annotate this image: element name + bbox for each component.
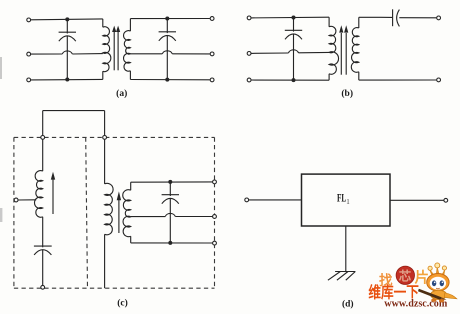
mascot pen xyxy=(418,289,442,300)
wire (a) output bottom xyxy=(130,79,210,81)
wire (c) output top xyxy=(131,181,213,183)
transformer T2 (b) core line right xyxy=(345,33,347,75)
wire hop (b) over C3 lead xyxy=(289,50,299,53)
shield box (c) right edge xyxy=(214,137,216,288)
wire (a) input top xyxy=(31,18,103,21)
transformer T2 (b) core arrow right xyxy=(344,25,348,32)
capacitor C2 top plate xyxy=(159,31,176,33)
wire (c) L5 to C5 xyxy=(42,217,44,248)
wire (a) output middle right of hop xyxy=(172,53,210,55)
terminal (d) output xyxy=(444,198,448,202)
figure (c): shielded two-section filter in dashed enclosure xyxy=(14,137,215,288)
wire (c) top loop right vertical xyxy=(104,111,106,184)
wire (c) input tap xyxy=(18,199,36,201)
capacitor C1 bottom lead xyxy=(66,36,68,80)
terminal (b) input top xyxy=(247,16,251,20)
svg-text:(a): (a) xyxy=(116,88,127,99)
capacitor C3 top plate xyxy=(285,29,302,31)
node (c) C6 bottom junction xyxy=(168,241,172,245)
mascot eye left xyxy=(432,280,436,286)
capacitor C3 bottom lead xyxy=(293,34,295,80)
wire (a) input bottom xyxy=(31,78,103,81)
capacitor C6 curved plate xyxy=(162,198,179,203)
shield box (c) left edge xyxy=(13,137,15,288)
wire (d) ground lead xyxy=(345,226,347,272)
inductor L2 (a) secondary winding with tap xyxy=(124,31,131,72)
wire (d) input xyxy=(249,199,302,201)
transformer T3 (c) core arrow head xyxy=(117,191,121,200)
node (b) C3 bottom junction xyxy=(292,78,296,82)
inductor L4 (b) secondary winding xyxy=(351,28,358,73)
terminal (c) output middle on shield xyxy=(213,215,217,219)
inductor L3 (b) primary winding with tap xyxy=(329,26,338,74)
transformer T1 (a) core line right xyxy=(117,32,119,71)
capacitor C2 curved plate xyxy=(159,35,176,40)
wire hop (a) left over C1 lead xyxy=(62,51,72,54)
wire (b) primary bottom lead xyxy=(328,74,330,80)
wire (b) input middle right of hop xyxy=(299,51,330,53)
terminal (a) output middle xyxy=(210,52,214,56)
ground (d) hatch 1 xyxy=(328,272,340,281)
transformer T1 (a) core arrow left xyxy=(112,26,116,32)
terminal (b) input bottom xyxy=(247,78,251,82)
mascot face xyxy=(430,277,446,290)
shield box (c) top edge xyxy=(14,136,215,138)
inductor L1 (a) primary winding with tap xyxy=(103,27,111,72)
svg-text:(c): (c) xyxy=(117,297,128,308)
wire (b) primary top lead xyxy=(328,17,330,27)
capacitor C4 (b) series curved plate xyxy=(397,10,400,27)
capacitor C1 curved plate xyxy=(59,36,76,41)
node (a) C1 top junction xyxy=(65,17,69,21)
wire (b) secondary top lead xyxy=(358,17,360,28)
transformer T2 (b) core arrow left xyxy=(339,25,343,32)
node (b) C3 top junction xyxy=(292,16,296,20)
svg-text:芯: 芯 xyxy=(399,268,412,283)
terminal (b) output top xyxy=(437,16,441,20)
terminal (a) input bottom xyxy=(27,78,31,82)
inductor L7 (c) transformer secondary with tap xyxy=(123,190,131,237)
wire (b) secondary bottom lead xyxy=(358,72,360,80)
transformer T1 (a) core arrow right xyxy=(116,26,120,32)
mascot body xyxy=(431,290,447,299)
capacitor C3 curved plate xyxy=(285,34,302,39)
wire (c) output middle right of hop xyxy=(175,216,212,218)
wire (c) top loop left vertical xyxy=(42,111,44,172)
capacitor C5 (c) bottom lead xyxy=(42,250,44,286)
wire (c) output middle left of hop xyxy=(131,216,166,218)
capacitor C4 (b) series straight plate xyxy=(392,9,394,26)
watermark red ball behind xin xyxy=(396,266,414,284)
svg-text:1: 1 xyxy=(346,198,350,206)
terminal (d) input xyxy=(245,198,249,202)
wire (b) input middle left of hop xyxy=(251,52,288,54)
wire (a) secondary bottom lead xyxy=(129,71,131,80)
wire hop (c) over C6 lead xyxy=(165,213,175,216)
terminal (b) input middle xyxy=(247,52,251,56)
wire (c) output bottom xyxy=(131,242,213,244)
wire (b) output top after C4 xyxy=(399,17,436,19)
ground (d) hatch 3 xyxy=(346,272,356,281)
capacitor C3 top lead xyxy=(293,18,295,32)
wire (c) secondary bottom lead xyxy=(130,236,132,243)
wire (b) output bottom xyxy=(359,79,437,81)
svg-text:(b): (b) xyxy=(341,88,353,99)
wire (a) primary top lead xyxy=(102,19,104,27)
node (a) C2 top junction xyxy=(165,17,169,21)
shield divider (c) internal wall xyxy=(86,137,88,288)
wire (b) input top xyxy=(251,16,329,19)
capacitor C5 (c) curved plate xyxy=(34,250,51,255)
transformer T3 (c) core arrow shaft xyxy=(118,200,120,233)
capacitor C5 (c) top plate xyxy=(34,245,52,247)
inductor L5 (c) tapped coil xyxy=(35,171,43,218)
terminal (a) output bottom xyxy=(210,78,214,82)
node (c) C6 top junction xyxy=(168,180,172,184)
capacitor C6 top plate xyxy=(162,194,179,196)
ground (d) hatch 2 xyxy=(337,272,348,281)
terminal (a) input middle xyxy=(27,52,31,56)
svg-text:FL: FL xyxy=(337,193,346,205)
transformer T1 (a) core line left xyxy=(113,32,115,71)
terminal (c) output top on shield xyxy=(213,180,217,184)
mascot mouth xyxy=(436,287,440,290)
capacitor C2 top lead xyxy=(166,19,168,34)
wire (c) primary bottom lead to shield xyxy=(104,234,106,288)
wire (a) output middle left of hop xyxy=(130,53,162,55)
mascot crown prongs xyxy=(430,267,445,276)
scan artifact left edge xyxy=(0,57,2,79)
node (c) C5 feedthrough on shield bottom xyxy=(41,285,45,289)
scan artifact left edge blob xyxy=(0,208,2,222)
wire (c) top loop horizontal xyxy=(43,110,105,112)
svg-text:(d): (d) xyxy=(342,298,354,309)
watermark mascot xyxy=(418,263,457,303)
capacitor C1 top plate xyxy=(59,31,76,33)
terminal (a) input top xyxy=(27,18,31,22)
inductor L5 (c) tuning arrow shaft xyxy=(52,179,54,214)
shield box (c) bottom edge xyxy=(14,287,215,289)
wire (c) secondary top lead xyxy=(130,182,132,190)
ground (d) bar xyxy=(335,271,355,273)
wire (a) input middle right of hop xyxy=(72,53,103,55)
terminal (a) output top xyxy=(210,17,214,21)
terminal (c) input on left shield wall xyxy=(14,198,18,202)
wire (a) input middle left of hop xyxy=(31,53,63,55)
node (a) C2 bottom junction xyxy=(165,78,169,82)
mascot head xyxy=(427,274,449,292)
node (c) feedthrough right on shield xyxy=(103,136,107,140)
mascot feet xyxy=(431,299,436,302)
node (c) feedthrough left on shield xyxy=(41,136,45,140)
wire (b) output top to C4 xyxy=(359,16,392,18)
mascot eye right xyxy=(440,280,444,286)
wire (a) secondary top lead xyxy=(129,19,131,32)
inductor L5 (c) tuning arrow head xyxy=(51,172,55,180)
capacitor C2 bottom lead xyxy=(166,35,168,79)
capacitor C6 top lead xyxy=(169,182,171,196)
filter FL1 (d) box xyxy=(302,174,391,226)
capacitor C6 bottom lead xyxy=(169,198,171,243)
inductor L6 (c) transformer primary xyxy=(105,183,114,234)
terminal (c) output bottom on shield xyxy=(213,241,217,245)
node (a) C1 bottom junction xyxy=(65,78,69,82)
svg-text:www.dzsc.com: www.dzsc.com xyxy=(384,299,447,310)
capacitor C1 top lead xyxy=(66,19,68,33)
wire (d) output xyxy=(390,199,444,201)
mascot arm xyxy=(444,293,457,299)
wire (a) output top xyxy=(130,18,210,20)
transformer T2 (b) core line left xyxy=(340,33,342,75)
terminal (b) output bottom xyxy=(437,78,441,82)
watermark dzsc.com logo group xyxy=(368,263,456,310)
wire (b) input bottom xyxy=(251,79,329,81)
wire hop (a) right over C2 lead xyxy=(162,51,172,54)
wire (a) primary bottom lead xyxy=(102,71,104,79)
